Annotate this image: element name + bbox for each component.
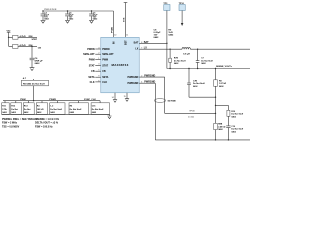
svg-text:PWRGND: PWRGND — [144, 81, 155, 84]
svg-text:Do Not Stuff: Do Not Stuff — [50, 108, 62, 111]
svg-text:PWRN: PWRN — [87, 48, 95, 51]
svg-text:DELTA VOUT = ±3 %: DELTA VOUT = ±3 % — [35, 122, 59, 125]
svg-text:PWRGND: PWRGND — [128, 76, 139, 79]
svg-text:SD FAB: SD FAB — [168, 99, 176, 102]
node BAT junction — [166, 43, 167, 44]
svg-text:Do Not: Do Not — [11, 108, 18, 111]
svg-text:1: 1 — [98, 58, 99, 60]
svg-text:RPCB: RPCB — [190, 110, 196, 112]
wire VOUT — [190, 48, 250, 50]
ground rail right — [155, 139, 250, 141]
svg-text:BST: BST — [124, 40, 127, 45]
svg-text:SMALLBT: SMALLBT — [102, 53, 114, 56]
U1 left pin SMALLBT — [83, 53, 114, 57]
U1 bottom pin GND — [112, 93, 118, 102]
resistor R7B — [169, 49, 186, 70]
svg-text:0402: 0402 — [168, 34, 174, 37]
svg-text:IN: IN — [112, 41, 115, 44]
node SENSE_VOUT wire — [167, 66, 250, 69]
U1 right pin LX — [135, 47, 147, 51]
svg-text:PVDD 3.3V IN: PVDD 3.3V IN — [44, 9, 57, 11]
svg-text:R8B: R8B — [218, 124, 223, 126]
svg-text:11: 11 — [126, 34, 128, 36]
svg-text:Do Not Stuff: Do Not Stuff — [92, 108, 104, 111]
wire PWRGND1 down — [164, 77, 166, 113]
svg-text:STAT: STAT — [32, 38, 38, 41]
wire PWRGND2 down — [154, 83, 156, 140]
svg-text:PWRSEL RSEL = SEE TABLE 1: PWRSEL RSEL = SEE TABLE 1 — [2, 118, 38, 121]
svg-text:14: 14 — [112, 97, 114, 99]
inductor L1 — [182, 48, 190, 56]
resistor R13 — [23, 101, 34, 115]
svg-text:1.87 kΩ: 1.87 kΩ — [219, 83, 227, 85]
svg-text:Do Not: Do Not — [24, 108, 31, 111]
note text left column — [2, 118, 38, 129]
svg-text:8: 8 — [141, 42, 142, 44]
svg-text:CB: CB — [102, 70, 106, 73]
input bus wire — [43, 10, 114, 12]
U1 left pin PWRN — [87, 47, 109, 51]
svg-text:TSS = 0.8 MS/V: TSS = 0.8 MS/V — [2, 126, 20, 129]
test point TP3 — [163, 3, 170, 44]
svg-text:CB: CB — [38, 47, 42, 49]
wire return to divider — [165, 112, 216, 114]
svg-text:PWM: PWM — [89, 58, 95, 61]
resistor R3 pullup wire CB — [9, 44, 42, 50]
svg-text:Do Not Stuff: Do Not Stuff — [231, 128, 243, 131]
svg-text:BAT: BAT — [134, 42, 139, 45]
wire SYS to IC BST pin — [124, 3, 128, 38]
svg-text:PWM: PWM — [20, 99, 26, 101]
wire LX to inductor — [139, 48, 182, 50]
resistor R6 select — [21, 77, 48, 86]
capacitor C8 label — [154, 29, 162, 39]
capacitor C3 — [41, 10, 50, 23]
svg-text:4: 4 — [98, 47, 99, 49]
svg-text:PVDD: PVDD — [111, 27, 113, 33]
svg-text:Do Not Stuff: Do Not Stuff — [193, 82, 205, 85]
svg-text:4.7kΩ: 4.7kΩ — [20, 35, 26, 38]
svg-text:2.49 kΩ: 2.49 kΩ — [218, 125, 226, 128]
svg-text:STAT: STAT — [89, 64, 95, 67]
net tie FB1 — [154, 99, 176, 103]
svg-text:2: 2 — [98, 53, 99, 55]
capacitor C5 — [89, 10, 98, 23]
svg-text:R6 0402 Do Not Stuff: R6 0402 Do Not Stuff — [23, 82, 45, 85]
resistor R9 label — [168, 29, 174, 36]
capacitor C6 — [30, 46, 44, 71]
svg-text:CLK: CLK — [102, 81, 107, 84]
U1 left pin STAT — [89, 64, 109, 68]
svg-text:5: 5 — [98, 70, 99, 72]
capacitor C16 — [91, 101, 109, 115]
wire branch to R10 — [215, 105, 216, 106]
test point TP10 — [179, 3, 186, 26]
capacitor C10 — [226, 126, 243, 140]
resistor R12 — [11, 101, 22, 115]
svg-text:PWM: PWM — [102, 58, 108, 61]
svg-text:9: 9 — [98, 76, 99, 78]
ground rail bottom row — [2, 113, 110, 115]
svg-text:RSENSE = 1.0 Ω ±1%: RSENSE = 1.0 Ω ±1% — [35, 118, 60, 121]
capacitor C7 — [196, 49, 213, 70]
svg-text:FSW = 100.5 Hz: FSW = 100.5 Hz — [35, 126, 53, 129]
svg-text:SYNC_CLK: SYNC_CLK — [84, 99, 96, 101]
svg-text:2.5 mΩ: 2.5 mΩ — [188, 116, 194, 118]
svg-text:PWRN: PWRN — [102, 48, 110, 51]
svg-text:4: 4 — [141, 82, 142, 84]
resistor R15 — [50, 101, 65, 115]
svg-text:C7B: C7B — [193, 80, 198, 82]
svg-text:SYS: SYS — [124, 17, 126, 22]
svg-text:0402: 0402 — [35, 62, 41, 65]
svg-text:DNI: DNI — [29, 36, 33, 38]
wire R6 to PWM rail — [33, 86, 35, 101]
svg-text:STAT: STAT — [102, 64, 108, 67]
U1 left pin CLK — [90, 80, 108, 84]
node PWM rail — [3, 99, 100, 102]
svg-text:MAX38743: MAX38743 — [111, 63, 128, 67]
svg-text:6: 6 — [98, 80, 99, 82]
svg-text:PWM2: PWM2 — [49, 99, 56, 101]
U1 right pin PWRGND2 — [128, 81, 156, 86]
resistor R14 — [36, 101, 47, 115]
resistor R8 — [214, 68, 227, 124]
svg-text:R7B: R7B — [174, 58, 179, 60]
svg-text:4.7kΩ: 4.7kΩ — [20, 44, 26, 47]
svg-text:CLK: CLK — [90, 81, 95, 84]
svg-text:SENSE_VOUT+: SENSE_VOUT+ — [216, 66, 233, 68]
svg-text:LX: LX — [135, 48, 138, 51]
resistor R10 — [227, 105, 243, 125]
svg-text:FSW = 2 MHz: FSW = 2 MHz — [2, 122, 18, 125]
resistor R16 — [69, 101, 88, 115]
svg-text:0402: 0402 — [154, 36, 160, 39]
svg-text:Do Not Stuff: Do Not Stuff — [231, 113, 243, 116]
svg-text:SETA: SETA — [88, 76, 94, 79]
svg-text:15: 15 — [124, 96, 126, 98]
svg-text:Do Not Stuff: Do Not Stuff — [201, 59, 213, 62]
op-amp U1 MAX38743 body — [101, 37, 139, 93]
svg-text:Do Not Stuff: Do Not Stuff — [70, 108, 82, 111]
svg-text:SMALLBT: SMALLBT — [83, 53, 95, 56]
U1 left pin CB — [91, 70, 106, 74]
U1 bottom pin EP — [124, 93, 130, 102]
svg-text:3: 3 — [98, 64, 99, 66]
note text right column — [35, 118, 60, 129]
svg-text:BAT: BAT — [144, 41, 149, 44]
capacitor C4 — [65, 10, 74, 23]
U1 right pin PWRGND1 — [128, 74, 165, 79]
resistor R2 pullup wire STAT — [8, 35, 38, 41]
wire BAT junction down to sense line — [166, 43, 168, 68]
svg-text:182 kΩ: 182 kΩ — [37, 109, 44, 111]
svg-text:Do Not Stuff: Do Not Stuff — [174, 59, 186, 62]
svg-text:PWRGND: PWRGND — [144, 74, 155, 77]
wire C7B to R8 — [189, 96, 216, 98]
U1 left pin SETA — [88, 76, 108, 80]
resistor R9B — [214, 123, 226, 139]
ground bottom row — [107, 114, 111, 118]
svg-text:2: 2 — [141, 75, 142, 77]
capacitor C7B — [187, 68, 205, 97]
resistor R11 — [2, 101, 10, 115]
U1 left pin PWM — [89, 58, 108, 62]
svg-text:CB: CB — [91, 70, 95, 73]
wire bus to IC IN pin — [113, 11, 115, 37]
svg-text:10: 10 — [114, 34, 116, 36]
net VIO supply — [7, 30, 11, 46]
svg-text:SETA: SETA — [102, 76, 108, 79]
U1 right pin BAT — [134, 41, 167, 45]
svg-text:6.8 μH: 6.8 μH — [183, 54, 190, 56]
svg-text:PWRGND: PWRGND — [128, 82, 139, 85]
